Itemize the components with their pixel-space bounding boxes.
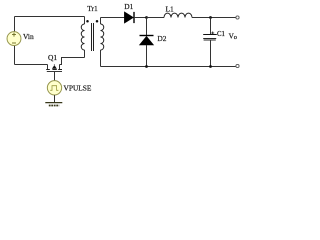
label VPULSE: [64, 84, 92, 93]
wire Q1 drain to transformer primary bottom: [60, 58, 85, 65]
svg-text:Tr1: Tr1: [87, 4, 98, 13]
wire left vertical from top rail to bottom rail: [14, 17, 16, 65]
wire D2 lower lead to bottom rail: [146, 45, 148, 67]
svg-text:Vo: Vo: [229, 33, 237, 42]
wire Q1 gate lead down to VPULSE: [54, 72, 56, 82]
svg-text:C1: C1: [217, 31, 225, 38]
transformer Tr1 phase dot primary: [86, 20, 89, 23]
terminal output bottom: [236, 64, 239, 67]
capacitor C1: [203, 32, 217, 41]
svg-text:Vin: Vin: [23, 32, 34, 41]
wire secondary bottom rail: [101, 66, 236, 68]
pulse source VPULSE: [47, 81, 61, 95]
wire junction to L1: [147, 17, 165, 19]
svg-text:D1: D1: [124, 2, 133, 11]
transformer Tr1 phase dot secondary: [96, 20, 99, 23]
label Vin: [23, 32, 34, 41]
svg-text:Q1: Q1: [48, 53, 57, 62]
transformer Tr1 primary winding: [81, 17, 84, 58]
ground: [45, 103, 62, 106]
label D1: [124, 2, 133, 11]
transformer Tr1 core: [92, 23, 94, 51]
wire top-left rail: [15, 16, 85, 18]
svg-text:D2: D2: [157, 34, 166, 43]
node C1 top junction: [209, 16, 212, 19]
transformer Tr1 secondary winding: [101, 18, 104, 67]
inductor L1: [164, 13, 192, 17]
node C1 bottom junction: [209, 65, 212, 68]
wire D1 to D2 junction: [134, 17, 147, 19]
diode D2: [140, 36, 154, 46]
node D2 bottom junction: [145, 65, 148, 68]
wire bottom-left rail to Q1: [15, 64, 48, 66]
terminal output top: [236, 16, 239, 19]
label D2: [157, 34, 166, 43]
label Vo: [229, 33, 237, 42]
voltage source Vin: [7, 32, 21, 46]
svg-text:VPULSE: VPULSE: [64, 84, 92, 93]
wire L1 to output terminal: [192, 17, 236, 19]
wire C1 top lead: [210, 18, 212, 35]
label C1: [217, 31, 225, 38]
label L1: [166, 5, 175, 14]
diode D1: [124, 12, 134, 23]
wire secondary top rail to D1: [101, 17, 125, 19]
label Tr1: [87, 4, 98, 13]
node D2 top junction: [145, 16, 148, 19]
svg-text:L1: L1: [166, 5, 175, 14]
transistor Q1 (NMOS, horizontal): [46, 65, 62, 72]
wire D2 vertical upper lead: [146, 18, 148, 36]
wire VPULSE to ground: [54, 95, 56, 102]
wire C1 bottom lead: [210, 40, 212, 67]
label Q1: [48, 53, 57, 62]
